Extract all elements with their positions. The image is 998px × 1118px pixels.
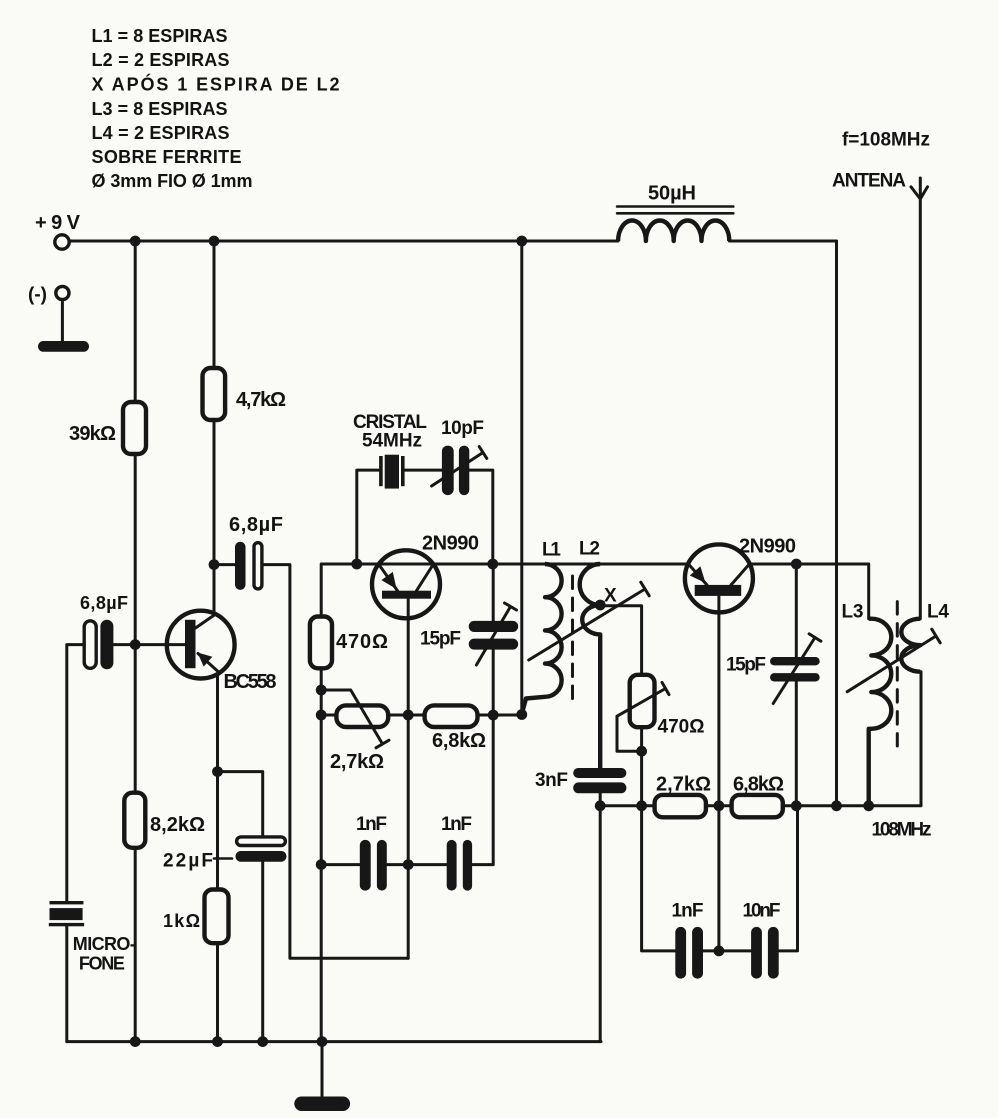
coil L4 bbox=[901, 619, 920, 672]
coil L3 bbox=[869, 619, 892, 806]
svg-text:6,8kΩ: 6,8kΩ bbox=[733, 774, 784, 796]
transistor Q3 2N990 output bbox=[685, 544, 753, 612]
wire 15pF to 1nF row bbox=[472, 715, 493, 865]
svg-text:1nF: 1nF bbox=[356, 814, 387, 835]
svg-text:3nF: 3nF bbox=[535, 770, 568, 791]
svg-text:6,8µF: 6,8µF bbox=[80, 593, 128, 613]
svg-text:L3 = 8 ESPIRAS: L3 = 8 ESPIRAS bbox=[92, 99, 228, 119]
microphone bbox=[49, 901, 84, 926]
wire cap row stage2 bbox=[703, 806, 798, 951]
svg-text:ANTENA: ANTENA bbox=[832, 171, 908, 192]
svg-text:1nF: 1nF bbox=[672, 901, 704, 922]
svg-text:SOBRE FERRITE: SOBRE FERRITE bbox=[92, 147, 242, 167]
svg-text:L2 = 2 ESPIRAS: L2 = 2 ESPIRAS bbox=[92, 50, 230, 70]
svg-text:2N990: 2N990 bbox=[739, 536, 796, 558]
svg-text:470Ω: 470Ω bbox=[336, 631, 388, 653]
coil L2 bbox=[580, 564, 601, 768]
svg-text:+9V: +9V bbox=[35, 212, 81, 234]
svg-text:39kΩ: 39kΩ bbox=[69, 423, 116, 445]
wire 1nF row bbox=[321, 863, 447, 866]
svg-text:X APÓS 1 ESPIRA DE L2: X APÓS 1 ESPIRA DE L2 bbox=[92, 74, 340, 95]
transistor Q1 BC558 bbox=[167, 611, 235, 679]
wire coupling cap branch bbox=[214, 565, 408, 959]
resistor 39k bbox=[123, 402, 146, 454]
svg-text:2N990: 2N990 bbox=[422, 533, 479, 555]
svg-text:15pF: 15pF bbox=[726, 655, 766, 676]
svg-text:8,2kΩ: 8,2kΩ bbox=[150, 814, 205, 836]
capacitor 1nF b bbox=[447, 840, 472, 891]
svg-text:470Ω: 470Ω bbox=[658, 717, 705, 738]
svg-text:6,8µF: 6,8µF bbox=[229, 514, 283, 536]
ground (main) bbox=[321, 1042, 324, 1097]
wire BC558 collector to bottom rail bbox=[216, 674, 219, 1041]
transistor Q2 2N990 oscillator bbox=[372, 550, 440, 618]
resistor 2.7k stage2 bbox=[655, 795, 706, 817]
wire trimmer wiper node down bbox=[640, 751, 643, 806]
svg-text:4,7kΩ: 4,7kΩ bbox=[236, 389, 286, 411]
svg-text:108MHz: 108MHz bbox=[872, 820, 932, 841]
svg-text:MICRO-: MICRO- bbox=[73, 934, 136, 954]
svg-text:54MHz: 54MHz bbox=[362, 431, 422, 452]
node X tap bbox=[595, 600, 606, 611]
ground (input) bbox=[38, 341, 89, 352]
wire 470 node to cap row bbox=[642, 806, 676, 951]
svg-text:15pF: 15pF bbox=[420, 629, 461, 650]
core L1 L2 bbox=[571, 576, 574, 702]
svg-text:10pF: 10pF bbox=[441, 418, 484, 439]
tuning arrow L3 L4 bbox=[847, 629, 940, 692]
wire Q3 base row bbox=[600, 564, 869, 619]
wire crystal loop right bbox=[469, 470, 493, 564]
wire oscillator base row bbox=[321, 564, 618, 617]
capacitor 1nF stage2 bbox=[675, 927, 703, 979]
wire supply drop column bbox=[520, 241, 523, 715]
svg-text:1kΩ: 1kΩ bbox=[163, 911, 200, 931]
svg-text:2,7kΩ: 2,7kΩ bbox=[330, 751, 384, 773]
svg-text:L2: L2 bbox=[579, 539, 600, 560]
svg-text:f=108MHz: f=108MHz bbox=[842, 130, 930, 151]
svg-text:Ø 3mm FIO Ø 1mm: Ø 3mm FIO Ø 1mm bbox=[92, 171, 253, 191]
capacitor 22uF bbox=[236, 837, 287, 862]
wire Q2 collector down bbox=[407, 599, 410, 959]
svg-text:(-): (-) bbox=[28, 285, 47, 306]
capacitor 10pF trimmer bbox=[432, 446, 487, 496]
resistor 1k bbox=[205, 890, 229, 944]
wire top supply rail bbox=[69, 240, 836, 243]
wire rail corner down to output rail bbox=[835, 241, 838, 806]
trimpot 2.7k stage1 bbox=[321, 690, 389, 748]
resistor 6.8k stage2 bbox=[732, 795, 783, 817]
svg-text:6,8kΩ: 6,8kΩ bbox=[432, 730, 486, 752]
resistor 8.2k bbox=[124, 793, 145, 848]
wire 470R to wiper node bbox=[320, 668, 323, 1041]
svg-text:1nF: 1nF bbox=[441, 814, 472, 835]
svg-text:FONE: FONE bbox=[79, 954, 125, 974]
wire crystal loop left bbox=[357, 470, 442, 564]
wire col 4.7k branch (rail to BC558 emitter) bbox=[213, 241, 216, 613]
svg-text:2,7kΩ: 2,7kΩ bbox=[656, 774, 711, 796]
wire Q3 emitter down bbox=[717, 596, 720, 951]
wire (-) to ground bbox=[61, 300, 64, 342]
wire output bias row bbox=[600, 672, 921, 806]
resistor 4.7k bbox=[203, 368, 226, 420]
capacitor 15pF trimmer stage2 bbox=[770, 564, 821, 806]
terminal (-) bbox=[56, 286, 69, 299]
wire X tap to 470R trimmer bbox=[600, 606, 641, 675]
wire mic feed (cap to microphone) bbox=[67, 645, 185, 1042]
svg-text:22µF: 22µF bbox=[163, 851, 213, 872]
wire bias row stage1 bbox=[321, 714, 522, 717]
antenna bbox=[911, 178, 928, 619]
wire 22uF branch bbox=[218, 772, 263, 1042]
terminal +9V bbox=[55, 235, 69, 249]
resistor 6.8k stage1 bbox=[425, 705, 478, 727]
svg-text:L4: L4 bbox=[927, 602, 949, 623]
resistor 470R stage1 bbox=[310, 617, 332, 669]
core L3 L4 bbox=[896, 602, 899, 746]
capacitor 3nF bbox=[573, 767, 626, 806]
svg-text:50µH: 50µH bbox=[648, 183, 696, 205]
wire col 39k branch (rail to base to bottom rail) bbox=[134, 241, 137, 1042]
svg-text:BC558: BC558 bbox=[224, 671, 277, 693]
svg-text:10nF: 10nF bbox=[743, 901, 781, 922]
coil L1 bbox=[522, 564, 562, 714]
capacitor 6.8uF output coupling bbox=[229, 514, 283, 590]
svg-text:L1: L1 bbox=[542, 540, 561, 561]
note text block bbox=[92, 26, 340, 191]
capacitor 1nF a bbox=[360, 840, 387, 891]
label tick 22uF bbox=[214, 857, 232, 860]
crystal 54MHz bbox=[379, 455, 405, 489]
inductor 50uH bbox=[617, 207, 733, 242]
capacitor 10nF bbox=[751, 927, 779, 979]
svg-text:L3: L3 bbox=[842, 602, 864, 623]
wire bottom ground rail bbox=[67, 1040, 601, 1043]
svg-text:X: X bbox=[604, 586, 617, 607]
svg-text:L4 = 2 ESPIRAS: L4 = 2 ESPIRAS bbox=[92, 123, 230, 143]
capacitor 6.8uF input bbox=[80, 593, 128, 669]
wire 3nF node to bottom rail bbox=[599, 806, 602, 1042]
tuning arrow L1 L2 bbox=[529, 582, 650, 660]
trimpot 470R stage2 bbox=[617, 675, 669, 751]
svg-text:L1 = 8 ESPIRAS: L1 = 8 ESPIRAS bbox=[92, 26, 228, 46]
capacitor 15pF trimmer stage1 bbox=[469, 564, 519, 715]
